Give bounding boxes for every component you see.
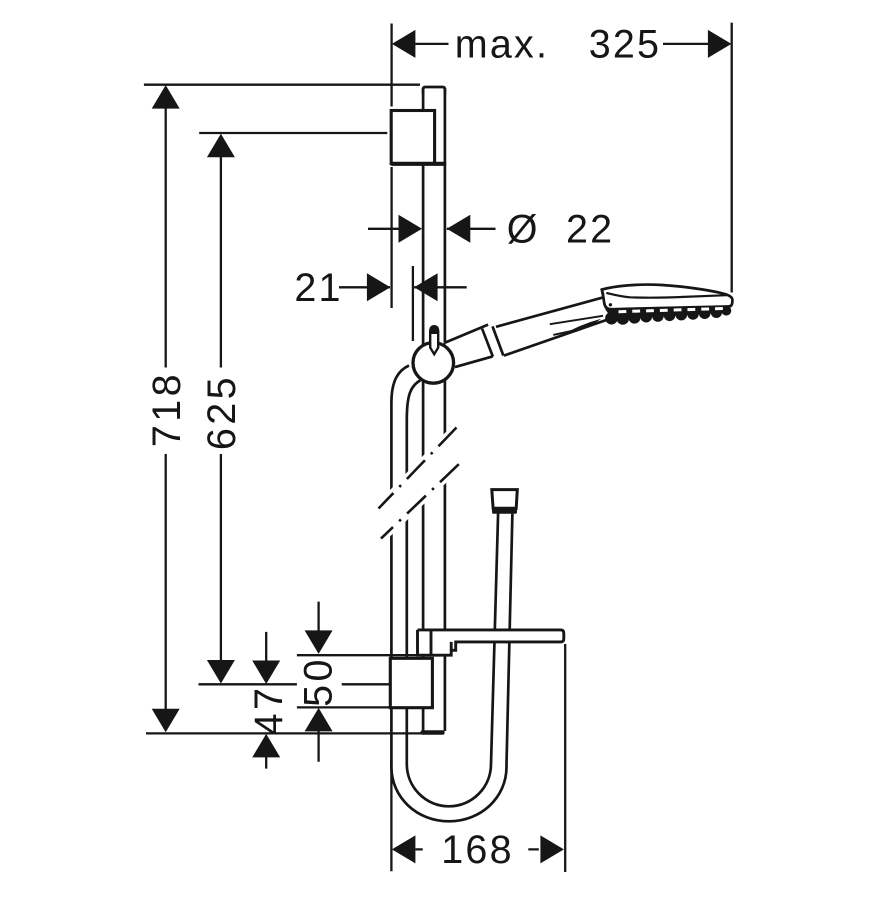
holder ball joint (413, 343, 454, 384)
arrowheads 50 (305, 630, 333, 654)
rail bottom end cap (420, 730, 444, 735)
hand shower handle (445, 296, 617, 368)
tube break symbol white band (379, 421, 459, 545)
top wall bracket (391, 111, 446, 164)
dimension 50 line (317, 602, 319, 762)
dimension 625 line (220, 140, 222, 678)
svg-text:max. 325: max. 325 (455, 23, 661, 67)
break line lower (dash-dot) (381, 464, 459, 538)
dimension diameter 22 line (368, 228, 496, 230)
dimension 718 line (165, 100, 167, 718)
dimension 168 right extension line (564, 644, 566, 872)
shower rail tube (423, 87, 445, 731)
dimension 21 line (339, 286, 467, 288)
dimension 625 top reference line (199, 132, 387, 134)
dimension 21 right extension line (412, 266, 414, 341)
svg-text:718: 718 (145, 371, 189, 447)
svg-text:47: 47 (247, 685, 291, 736)
hose connector cone (492, 490, 518, 514)
dimension 168 line (415, 848, 538, 850)
arrowheads diameter 22 (399, 215, 423, 243)
reference line y684 (199, 683, 391, 685)
arrowheads max.325 (392, 30, 416, 58)
corner tick (602, 290, 604, 295)
rail top end cap (423, 87, 445, 94)
svg-text:21: 21 (294, 266, 342, 310)
dimension 47 line (265, 632, 267, 769)
small dot (609, 303, 612, 306)
dimension 168 left extension line (390, 760, 392, 871)
slider block and shelf bar (418, 630, 564, 655)
bottom wall bracket (390, 658, 432, 707)
break line upper (dash-dot) (379, 428, 457, 509)
dimension 718 bottom reference line (146, 732, 422, 734)
arrowheads 168 (392, 835, 416, 863)
nozzle white dashes (619, 308, 728, 311)
arrowheads 21 (367, 273, 391, 301)
dimension max.325 left extension line (390, 24, 392, 309)
reference line y655 (297, 654, 420, 656)
reference line y707 (297, 706, 391, 708)
shower head (602, 285, 733, 325)
svg-text:50: 50 (296, 656, 340, 707)
svg-text:168: 168 (441, 828, 514, 872)
handle detail lines (550, 316, 603, 324)
dimension max.325 line (415, 43, 708, 45)
head rim inner line (606, 293, 727, 298)
nozzle band (605, 306, 732, 325)
holder pin (430, 326, 438, 354)
dimension max.325 right extension line (731, 23, 733, 293)
svg-text:625: 625 (200, 374, 244, 450)
select button (563, 319, 602, 335)
arrowheads 625 (207, 134, 235, 158)
shower hose outer edge (391, 366, 512, 822)
svg-text:Ø 22: Ø 22 (507, 208, 615, 252)
shower hose inner edge (407, 380, 498, 806)
arrowheads 47 (252, 661, 280, 685)
arrowheads 718 (152, 85, 180, 109)
dimension 718 top reference line (144, 84, 420, 86)
